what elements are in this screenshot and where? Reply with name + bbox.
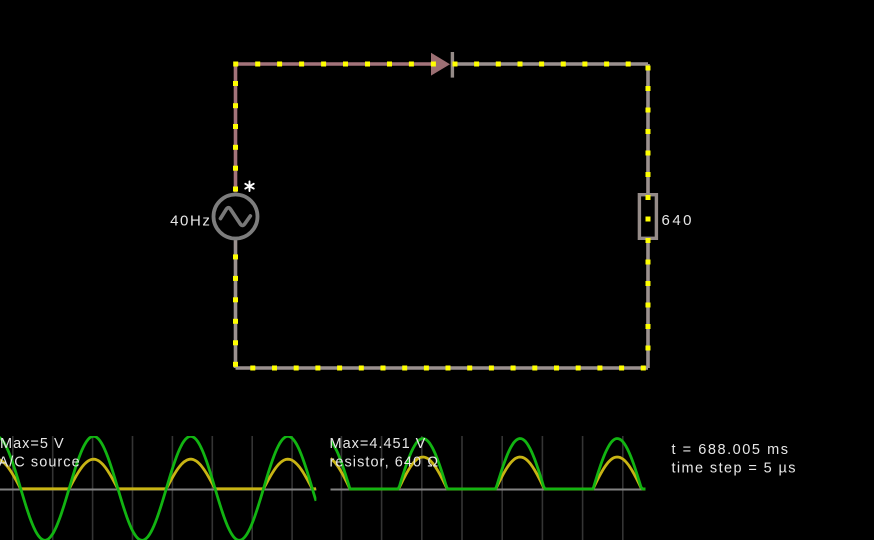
left scope trace: current (yellow rectified) — [0, 459, 316, 489]
right scope gridlines — [341, 436, 622, 540]
diode D1 triangle (anode) — [431, 53, 450, 76]
right scope trace: resistor voltage (green rectified) — [331, 439, 646, 490]
AC source sine symbol — [221, 208, 251, 226]
svg-text:time step = 5 µs: time step = 5 µs — [672, 461, 797, 477]
left scope zero axis — [0, 489, 316, 491]
right scope trace: resistor current (yellow rectified) — [331, 457, 646, 489]
svg-text:40Hz: 40Hz — [170, 212, 211, 229]
wire top-left (anode side, slightly negative voltage) — [236, 64, 432, 192]
AC voltage source V1 circle — [214, 195, 258, 239]
positive terminal marker * — [245, 181, 253, 191]
resistor R1 box (640 ohms) — [639, 195, 656, 239]
wire diode cathode to top-right corner — [452, 62, 648, 66]
svg-text:640: 640 — [662, 212, 695, 229]
svg-text:t = 688.005 ms: t = 688.005 ms — [672, 442, 790, 458]
svg-text:A/C source: A/C source — [0, 455, 81, 471]
current dots along wires — [233, 62, 651, 371]
wire bottom — [236, 366, 649, 370]
wire left-lower (source negative lead) — [234, 240, 238, 368]
left scope trace: A/C source voltage (green sine) — [0, 436, 316, 540]
right scope zero axis — [331, 489, 646, 491]
left scope gridlines — [13, 436, 292, 540]
diode D1 cathode bar — [451, 52, 454, 78]
wire right side (resistor leads) — [646, 64, 650, 193]
svg-text:Max=5 V: Max=5 V — [0, 436, 65, 452]
svg-text:resistor, 640 Ω: resistor, 640 Ω — [330, 455, 440, 471]
svg-text:Max=4.451 V: Max=4.451 V — [330, 436, 427, 452]
